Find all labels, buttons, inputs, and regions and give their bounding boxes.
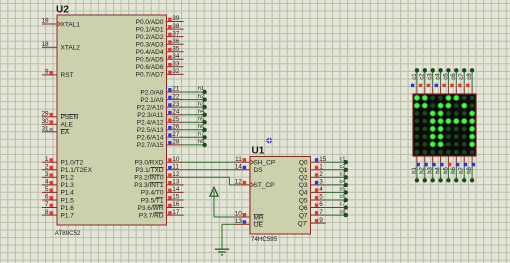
pin 1 P1.0 [42,156,57,163]
svg-text:P0.4/AD4: P0.4/AD4 [136,49,164,56]
svg-text:U2: U2 [56,5,69,16]
wire Q2 to terminal c3 [326,176,346,178]
pin 29 PSEN [41,111,57,118]
wire Q6 to terminal c7 [326,207,346,209]
wire P2.6 to terminal h7 [184,136,205,138]
pin 5 P1.4 [42,186,57,193]
U1 pin name labels [254,160,308,229]
terminal h7 [198,132,207,140]
matrix column pin c5 [442,68,450,94]
pin 11 P3.1 [167,164,184,171]
U2 pin name labels left [61,21,93,219]
svg-text:SH_CP: SH_CP [254,160,276,167]
matrix column pin c7 [458,68,466,94]
svg-text:h5: h5 [443,166,449,173]
pin 13 OE [235,218,250,225]
terminal c8 [340,209,348,217]
svg-text:XTAL1: XTAL1 [61,21,81,28]
svg-text:U1: U1 [252,146,265,157]
pin 28 P2.7 [167,139,184,146]
svg-text:P0.6/AD6: P0.6/AD6 [136,64,164,71]
svg-text:h8: h8 [198,139,204,145]
pin 15 P3.5 [167,194,184,201]
svg-text:c1: c1 [340,156,346,162]
svg-text:c5: c5 [340,187,346,193]
wire OE to ground [222,224,235,249]
svg-text:P1.2: P1.2 [61,175,75,182]
pin 35 P0.4 [167,45,184,52]
svg-text:P2.5/A13: P2.5/A13 [137,127,164,134]
svg-text:P2.3/A11: P2.3/A11 [137,112,164,119]
svg-text:c7: c7 [459,73,465,80]
pin 11 SH_CP [235,156,250,163]
svg-text:14: 14 [235,164,243,171]
svg-text:P2.6/A14: P2.6/A14 [137,135,164,142]
svg-text:c4: c4 [340,179,346,185]
pin 10 P3.0 [167,156,184,163]
pin 30 ALE [41,118,57,125]
pin 39 P0.0 [167,15,184,22]
pin 25 P2.4 [167,116,184,123]
svg-text:ALE: ALE [61,122,74,129]
svg-text:Q2: Q2 [299,175,308,182]
svg-text:P0.7/AD7: P0.7/AD7 [136,72,164,79]
svg-text:15: 15 [172,194,180,201]
svg-text:P3.0/RXD: P3.0/RXD [135,160,164,167]
svg-text:MR: MR [254,214,264,221]
pin 9 RST [42,69,57,76]
matrix column pin c3 [427,68,435,94]
svg-text:16: 16 [172,201,180,208]
svg-text:7: 7 [45,201,49,208]
wire P3.1 to DS [184,169,235,171]
svg-text:12: 12 [235,179,243,186]
svg-text:Q7': Q7' [298,220,308,227]
svg-text:1: 1 [45,156,49,163]
svg-text:c2: c2 [340,164,346,170]
terminal c5 [340,187,348,195]
svg-text:h8: h8 [467,166,473,173]
svg-text:6: 6 [319,201,323,208]
pin 10 MR [235,211,250,218]
svg-text:11: 11 [172,164,179,171]
svg-text:1: 1 [319,164,323,171]
svg-text:c8: c8 [467,73,473,80]
svg-text:9: 9 [319,217,323,224]
matrix row pin h1 [412,156,420,183]
svg-text:23: 23 [172,101,180,108]
svg-text:c6: c6 [451,73,457,80]
svg-text:P3.6/WR: P3.6/WR [137,205,163,212]
pin 22 P2.1 [167,93,184,100]
svg-text:OE: OE [254,222,264,229]
wire P2.2 to terminal h3 [184,106,205,108]
wire P2.0 to terminal h1 [184,91,205,93]
svg-text:c6: c6 [340,194,346,200]
svg-text:10: 10 [235,211,243,218]
svg-text:c8: c8 [340,209,346,215]
svg-text:4: 4 [45,179,49,186]
pin 36 P0.3 [167,38,184,45]
matrix column pin c1 [411,68,419,94]
svg-text:19: 19 [41,18,49,25]
pin 12 ST_CP [235,179,250,186]
svg-text:h3: h3 [428,166,434,173]
terminal h2 [198,94,207,102]
pin 5 Q5 [311,194,326,201]
svg-text:39: 39 [172,15,180,22]
svg-text:RST: RST [61,72,74,79]
shift register U1 74HC595 [250,146,311,244]
svg-text:P2.7/A15: P2.7/A15 [137,142,164,149]
svg-text:PSEN: PSEN [61,114,79,121]
svg-text:28: 28 [172,139,180,146]
pin 32 P0.7 [167,68,184,75]
svg-text:14: 14 [172,186,180,193]
clock marker SH_CP [251,160,254,164]
svg-text:8: 8 [45,209,49,216]
matrix row pin h3 [428,156,436,183]
pin 12 P3.2 [167,171,184,178]
svg-text:13: 13 [172,179,180,186]
U2 pin name labels right [134,19,164,220]
svg-text:3: 3 [45,171,49,178]
svg-text:3: 3 [319,179,323,186]
matrix column pin c4 [435,68,443,94]
terminal h3 [198,101,207,109]
wire Q7 to terminal c8 [326,214,346,216]
svg-text:22: 22 [172,93,180,100]
svg-text:h7: h7 [459,166,465,173]
svg-text:h3: h3 [198,101,204,107]
wire power to MR [214,216,235,218]
svg-text:6: 6 [45,194,49,201]
svg-text:XTAL2: XTAL2 [61,45,81,52]
pin 27 P2.6 [167,131,184,138]
wire P3.0 to SH_CP [184,161,235,163]
pin 7 P1.6 [42,201,57,208]
svg-text:P1.0/T2: P1.0/T2 [61,160,84,167]
wire P2.5 to terminal h6 [184,129,205,131]
wire Q3 to terminal c4 [326,184,346,186]
svg-text:P0.2/AD2: P0.2/AD2 [136,34,164,41]
pin 15 Q0 [311,156,327,163]
svg-text:h6: h6 [451,166,457,173]
svg-text:P1.3: P1.3 [61,182,75,189]
matrix row pin h2 [420,156,428,183]
pin 16 P3.6 [167,201,184,208]
svg-text:17: 17 [172,209,180,216]
microcontroller U2 AT89C52 [55,5,167,238]
wire Q1 to terminal c2 [326,169,346,171]
wire P3.2 to ST_CP [184,177,235,185]
svg-text:37: 37 [172,30,180,37]
terminal h5 [198,116,207,124]
svg-text:5: 5 [319,194,323,201]
pin 2 Q2 [311,171,326,178]
svg-text:7: 7 [319,209,323,216]
svg-text:27: 27 [172,131,180,138]
svg-text:h1: h1 [412,166,418,173]
svg-text:AT89C52: AT89C52 [55,230,81,237]
svg-text:h6: h6 [198,124,204,130]
svg-text:12: 12 [172,171,180,178]
pin 31 EA [41,126,57,133]
pin 9 Q7' [311,217,326,224]
svg-text:11: 11 [235,156,242,163]
pin 38 P0.1 [167,23,184,30]
svg-text:c5: c5 [443,73,449,80]
svg-text:4: 4 [319,186,323,193]
terminal c3 [340,172,348,180]
svg-text:P1.7: P1.7 [61,212,75,219]
matrix row pin h4 [436,156,444,183]
svg-text:P0.5/AD5: P0.5/AD5 [136,57,164,64]
pin 19 XTAL1 [41,18,57,25]
svg-text:P2.1/A9: P2.1/A9 [140,97,164,104]
clock marker ST_CP [251,183,254,187]
svg-text:29: 29 [41,111,49,118]
svg-text:c2: c2 [420,73,426,80]
svg-text:P1.5: P1.5 [61,197,75,204]
svg-text:Q7: Q7 [299,212,308,219]
svg-text:h4: h4 [198,109,204,115]
matrix column pin c2 [419,68,427,94]
svg-text:h2: h2 [420,166,426,173]
wire P2.1 to terminal h2 [184,99,205,101]
svg-text:18: 18 [41,41,49,48]
svg-text:c1: c1 [412,73,418,80]
pin 3 Q3 [311,179,326,186]
svg-text:21: 21 [172,86,180,93]
terminal c1 [340,156,348,164]
svg-text:P3.5/T1: P3.5/T1 [141,197,164,204]
svg-text:EA: EA [61,129,70,136]
pin 14 P3.4 [167,186,184,193]
ground [215,249,229,255]
terminal c6 [340,194,348,202]
terminal c7 [340,202,348,210]
svg-text:30: 30 [41,118,49,125]
svg-text:P3.1/TXD: P3.1/TXD [135,167,163,174]
svg-text:P1.4: P1.4 [61,190,75,197]
pin 1 Q1 [311,164,326,171]
matrix row pin h6 [451,156,459,183]
svg-text:P1.6: P1.6 [61,205,75,212]
pin 6 Q6 [311,201,326,208]
svg-text:2: 2 [319,171,323,178]
svg-text:5: 5 [45,186,49,193]
matrix column pin c8 [466,68,474,94]
svg-text:P3.4/T0: P3.4/T0 [141,190,164,197]
terminal h4 [198,109,207,117]
svg-text:15: 15 [319,156,327,163]
wire P2.3 to terminal h4 [184,114,205,116]
svg-text:P3.7/RD: P3.7/RD [139,212,164,219]
svg-text:h4: h4 [436,166,442,173]
pin 3 P1.2 [42,171,57,178]
svg-text:13: 13 [235,218,243,225]
svg-text:P3.3/INT1: P3.3/INT1 [134,182,164,189]
svg-text:33: 33 [172,61,180,68]
svg-text:P2.0/A8: P2.0/A8 [140,89,164,96]
matrix row pin h5 [443,156,451,183]
pin 26 P2.5 [167,124,184,131]
LED matrix display 8x8 [413,94,476,156]
svg-text:10: 10 [172,156,180,163]
pin 23 P2.2 [167,101,184,108]
terminal h1 [198,86,207,94]
svg-text:34: 34 [172,53,180,60]
power terminal VCC [210,187,218,217]
pin 24 P2.3 [167,108,184,115]
pin 7 Q7 [311,209,326,216]
svg-text:9: 9 [45,69,49,76]
matrix column pin c6 [450,68,458,94]
svg-text:36: 36 [172,38,180,45]
matrix row pin h8 [467,156,475,183]
svg-text:P3.2/INT0: P3.2/INT0 [134,175,164,182]
svg-text:Q6: Q6 [299,205,308,212]
pin 4 P1.3 [42,179,57,186]
svg-text:P0.3/AD3: P0.3/AD3 [136,42,164,49]
svg-text:c7: c7 [340,202,346,208]
pin 37 P0.2 [167,30,184,37]
svg-text:25: 25 [172,116,180,123]
svg-text:h5: h5 [198,116,204,122]
svg-text:Q4: Q4 [299,190,308,197]
terminal h8 [198,139,207,147]
wire P2.4 to terminal h5 [184,121,205,123]
wire Q4 to terminal c5 [326,191,346,193]
pin 14 DS [235,164,250,171]
svg-text:74HC595: 74HC595 [251,236,278,243]
pin 4 Q4 [311,186,326,193]
svg-text:Q3: Q3 [299,182,308,189]
clock marker XTAL1 [58,22,61,26]
svg-text:P2.2/A10: P2.2/A10 [137,104,164,111]
pin 18 XTAL2 [41,41,57,48]
svg-text:35: 35 [172,45,180,52]
pin 17 P3.7 [167,209,184,216]
terminal h6 [198,124,207,132]
svg-text:32: 32 [172,68,180,75]
svg-text:ST_CP: ST_CP [254,182,275,189]
svg-text:c3: c3 [340,172,346,178]
terminal c4 [340,179,348,187]
pin 13 P3.3 [167,179,184,186]
svg-text:P1.1/T2EX: P1.1/T2EX [61,167,93,174]
pin 6 P1.5 [42,194,57,201]
terminal c2 [340,164,348,172]
pin 33 P0.6 [167,61,184,68]
svg-text:h1: h1 [198,86,204,92]
svg-text:Q5: Q5 [299,197,308,204]
svg-text:31: 31 [41,126,49,133]
wire P2.7 to terminal h8 [184,144,205,146]
svg-text:26: 26 [172,124,180,131]
svg-text:Q0: Q0 [299,160,308,167]
svg-text:c3: c3 [428,73,434,80]
svg-text:2: 2 [45,164,49,171]
wire Q0 to terminal c1 [326,161,346,163]
svg-text:P2.4/A12: P2.4/A12 [137,120,164,127]
pin 34 P0.5 [167,53,184,60]
svg-text:Q1: Q1 [299,167,308,174]
svg-text:38: 38 [172,23,180,30]
svg-text:DS: DS [254,167,264,174]
pin 21 P2.0 [167,86,184,93]
matrix row pin h7 [459,156,467,183]
svg-text:c4: c4 [436,73,442,80]
svg-text:P0.1/AD1: P0.1/AD1 [136,26,164,33]
pin 2 P1.1 [42,164,57,171]
svg-text:P0.0/AD0: P0.0/AD0 [136,19,164,26]
svg-text:h7: h7 [198,132,204,138]
wire Q5 to terminal c6 [326,199,346,201]
svg-text:h2: h2 [198,94,204,100]
origin marker [265,136,274,145]
svg-text:24: 24 [172,108,180,115]
pin 8 P1.7 [42,209,57,216]
